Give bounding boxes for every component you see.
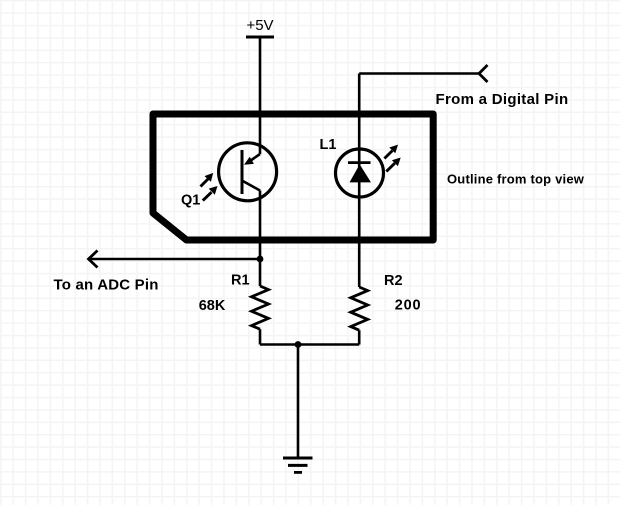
resistor R1 bbox=[252, 259, 269, 345]
wire: bottom rail R1 to R2 bbox=[260, 343, 359, 346]
wire: node B to ground bbox=[297, 345, 300, 459]
wire: from digital pin connector down to L1 bbox=[359, 65, 487, 149]
svg-text:Outline from top view: Outline from top view bbox=[447, 172, 585, 187]
wire: node A to ADC pin with open arrowhead bbox=[89, 251, 261, 268]
transistor Q1 (phototransistor) bbox=[219, 143, 277, 201]
wire: +5V to Q1 collector bbox=[259, 37, 262, 154]
svg-text:L1: L1 bbox=[320, 137, 337, 153]
node A junction bbox=[257, 256, 264, 263]
svg-text:68K: 68K bbox=[199, 298, 226, 314]
Q1 light arrows bbox=[201, 173, 218, 201]
svg-text:To an ADC Pin: To an ADC Pin bbox=[54, 276, 159, 293]
resistor R2 bbox=[351, 287, 368, 345]
ground bbox=[283, 458, 313, 472]
node B junction bbox=[295, 341, 302, 348]
wire: Q1 emitter to node A bbox=[259, 191, 262, 260]
svg-text:From a Digital Pin: From a Digital Pin bbox=[436, 91, 569, 108]
svg-text:R2: R2 bbox=[384, 273, 403, 289]
LED L1 bbox=[336, 149, 384, 197]
svg-text:R1: R1 bbox=[231, 273, 250, 289]
svg-text:200: 200 bbox=[395, 298, 422, 314]
wire: L1 to R2 bbox=[358, 197, 361, 287]
svg-text:Q1: Q1 bbox=[181, 193, 200, 209]
power +5V symbol bbox=[246, 17, 274, 37]
svg-text:+5V: +5V bbox=[246, 17, 273, 34]
optocoupler package outline (top view) bbox=[153, 114, 433, 240]
L1 light arrows bbox=[384, 145, 400, 172]
